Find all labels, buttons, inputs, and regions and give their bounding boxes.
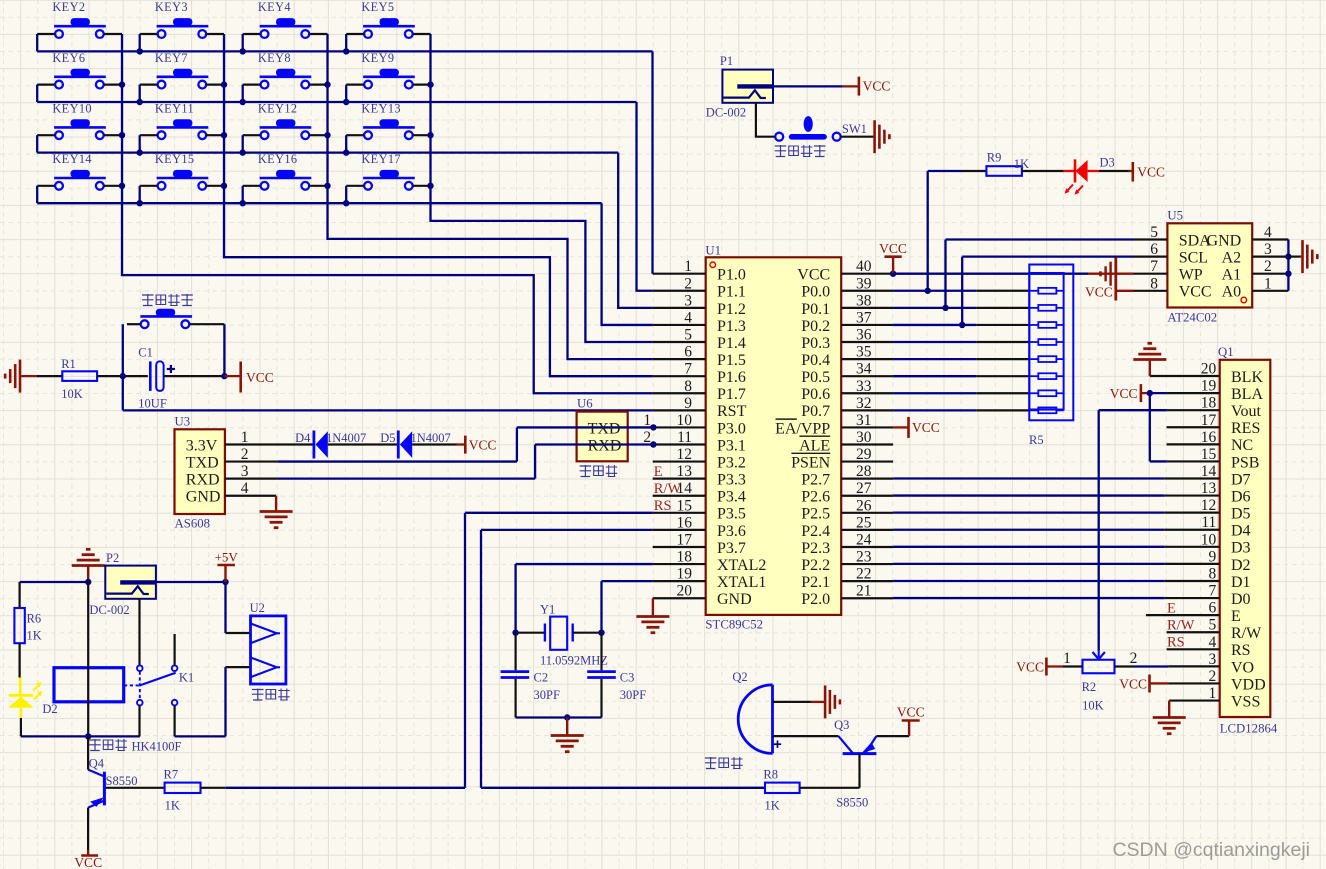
pin number 34: [856, 361, 872, 378]
wire: [1046, 665, 1082, 667]
pin stub left U5: [1134, 238, 1168, 240]
svg-text:1K: 1K: [1014, 157, 1029, 171]
svg-text:2: 2: [1130, 650, 1138, 667]
wire keypad row bus: [37, 151, 618, 153]
pin number 17: [677, 531, 693, 548]
svg-text:29: 29: [856, 446, 872, 463]
net label R/W Q1: [1167, 618, 1195, 634]
pin name RST: [717, 403, 747, 420]
pin number 16 Q1: [1201, 429, 1217, 446]
wire col4 to P1.4: [431, 34, 653, 342]
svg-text:RS: RS: [1231, 642, 1251, 659]
svg-text:U6: U6: [577, 397, 593, 411]
pin name P3.3: [717, 472, 746, 489]
svg-text:12: 12: [677, 446, 693, 463]
svg-text:P2.7: P2.7: [801, 472, 830, 489]
svg-text:1: 1: [1063, 650, 1071, 667]
svg-text:P1.0: P1.0: [717, 267, 746, 284]
relay coil HK4100F: [54, 668, 124, 702]
svg-text:RXD: RXD: [588, 437, 622, 454]
svg-text:TXD: TXD: [186, 454, 219, 471]
svg-text:AT24C02: AT24C02: [1167, 311, 1217, 325]
pin 18 stub U1: [653, 563, 706, 565]
junction: [221, 132, 227, 138]
wire col2 to P1.6: [224, 34, 653, 376]
svg-text:1K: 1K: [165, 799, 180, 813]
wire: [206, 185, 224, 187]
svg-text:TXD: TXD: [588, 420, 621, 437]
svg-text:34: 34: [856, 361, 872, 378]
pin 35 stub U1: [841, 358, 893, 360]
wire: [600, 633, 602, 671]
pin numbers U6: [643, 412, 651, 446]
svg-text:P3.7: P3.7: [717, 540, 746, 557]
LED D2: [8, 678, 57, 719]
pin number 8 Q1: [1209, 565, 1217, 582]
connector P2 DC-002: [89, 551, 155, 617]
svg-text:U2: U2: [250, 601, 265, 615]
svg-text:P2.5: P2.5: [801, 506, 830, 523]
svg-text:K1: K1: [179, 671, 194, 685]
svg-text:GND: GND: [186, 489, 221, 506]
wire P0.2 to R5: [893, 324, 1029, 326]
svg-text:23: 23: [856, 549, 872, 566]
svg-text:37: 37: [856, 309, 872, 326]
svg-text:D1: D1: [1231, 574, 1251, 591]
svg-text:KEY7: KEY7: [155, 51, 188, 65]
wire col1 to P1.7: [122, 34, 653, 393]
pin name Vout Q1: [1231, 403, 1261, 420]
wire VO: [1115, 665, 1220, 667]
svg-text:D4: D4: [295, 431, 311, 445]
pin number 22: [856, 566, 872, 583]
svg-text:Vout: Vout: [1231, 403, 1261, 420]
svg-text:D3: D3: [1100, 156, 1115, 170]
wire TXD: [225, 460, 517, 462]
pin 7 stub U1: [653, 375, 706, 377]
svg-text:P1.4: P1.4: [717, 335, 746, 352]
svg-text:P3.5: P3.5: [717, 506, 746, 523]
pin 33 stub U1: [841, 392, 893, 394]
pin 38 stub U1: [841, 307, 893, 309]
pin name XTAL2: [717, 557, 766, 574]
wire: [345, 186, 347, 203]
wire: [242, 186, 244, 203]
power VCC at P1: [859, 77, 890, 96]
pin name P3.4: [717, 489, 746, 506]
pin 28 stub U1: [841, 478, 893, 480]
svg-text:P1: P1: [720, 54, 733, 68]
power VCC at BLA: [1110, 384, 1141, 402]
wire: [309, 185, 327, 187]
wire: [140, 33, 158, 35]
power VCC at Q3: [897, 705, 925, 737]
svg-text:VO: VO: [1231, 659, 1254, 676]
pin number 20 Q1: [1201, 361, 1217, 378]
svg-text:VCC: VCC: [1179, 284, 1212, 301]
pin number 40: [856, 258, 872, 275]
wire: [242, 34, 244, 51]
pin 29 stub U1: [841, 460, 893, 462]
net label E Q1: [1167, 601, 1176, 617]
pin 2 stub U1: [653, 290, 706, 292]
wire BLA: [1141, 392, 1220, 394]
svg-text:P1.2: P1.2: [717, 301, 746, 318]
pin number 1 U5: [1264, 275, 1272, 292]
wire RXD riser: [535, 445, 653, 479]
push button KEY8: [258, 51, 311, 89]
svg-text:32: 32: [856, 395, 872, 412]
wire: [140, 134, 158, 136]
net label R/W: [654, 481, 682, 497]
svg-text:P0.0: P0.0: [801, 284, 830, 301]
pin 24 stub U1: [841, 546, 893, 548]
pin name XTAL1: [717, 574, 766, 591]
ground earth right of U5: [1303, 240, 1318, 273]
pin name P3.2: [717, 454, 746, 471]
svg-text:39: 39: [856, 275, 872, 292]
pin number 18 Q1: [1201, 395, 1217, 412]
designator U6: [577, 397, 593, 411]
resistor R7 1K: [164, 768, 201, 813]
wire: [773, 701, 826, 703]
wire Vout: [1099, 409, 1220, 411]
svg-text:P0.6: P0.6: [801, 386, 830, 403]
svg-text:D2: D2: [1231, 557, 1251, 574]
wire: [19, 643, 21, 677]
wire: [1022, 170, 1064, 172]
pin number 23: [856, 549, 872, 566]
pin name P0.2: [801, 318, 830, 335]
svg-text:21: 21: [856, 583, 872, 600]
pin name D1 Q1: [1231, 574, 1251, 591]
wire: [189, 324, 224, 376]
svg-text:STC89C52: STC89C52: [705, 618, 763, 632]
transistor Q3 S8550: [834, 718, 876, 810]
pin number 18: [677, 549, 693, 566]
svg-text:36: 36: [856, 327, 872, 344]
svg-text:P0.7: P0.7: [801, 403, 830, 420]
pin 4 stub U1: [653, 324, 706, 326]
comment STC89C52: [705, 618, 763, 632]
wire: [893, 426, 908, 428]
svg-text:30: 30: [856, 429, 872, 446]
pin name WP U5: [1179, 267, 1203, 284]
svg-text:P2: P2: [106, 551, 119, 565]
pin number 8 U5: [1150, 275, 1158, 292]
pin name P3.0: [717, 420, 746, 437]
svg-text:P0.2: P0.2: [801, 318, 830, 335]
label 复位按键: [142, 294, 193, 306]
wire SCL: [962, 257, 1133, 325]
wire: [1150, 375, 1220, 377]
pin number 5: [684, 327, 692, 344]
wire: [346, 83, 364, 85]
svg-text:DC-002: DC-002: [89, 603, 129, 617]
pin name P2.7: [801, 472, 830, 489]
pin number 33: [856, 378, 872, 395]
pin name P1.1: [717, 284, 746, 301]
pin number 9: [684, 395, 692, 412]
pin name GND: [717, 591, 752, 608]
pin number 12 Q1: [1201, 497, 1217, 514]
svg-text:7: 7: [684, 361, 692, 378]
svg-text:1: 1: [643, 412, 651, 429]
connector P1 DC-002: [706, 54, 773, 120]
pin number 11: [677, 429, 692, 446]
pin name P1.0: [717, 267, 746, 284]
wire: [345, 135, 347, 152]
wire: [140, 185, 158, 187]
pin number 15 Q1: [1201, 446, 1217, 463]
power VCC at R2: [1016, 658, 1046, 676]
pin name P1.7: [717, 386, 746, 403]
wire: [87, 736, 89, 769]
pin name P0.1: [801, 301, 830, 318]
power VCC at EA/VPP: [909, 417, 940, 438]
ground earth left of R1: [5, 360, 20, 393]
svg-text:+5V: +5V: [215, 550, 239, 565]
wire: [104, 134, 122, 136]
pin name BLA Q1: [1231, 386, 1263, 403]
svg-text:R/W: R/W: [1231, 625, 1262, 642]
svg-text:KEY15: KEY15: [155, 152, 195, 166]
svg-text:22: 22: [856, 566, 872, 583]
svg-text:RXD: RXD: [186, 472, 220, 489]
wire: [346, 33, 364, 35]
svg-text:KEY3: KEY3: [155, 0, 188, 14]
pin 40 stub U1: [841, 273, 893, 275]
pin number 6: [684, 344, 692, 361]
svg-text:P2.0: P2.0: [801, 591, 830, 608]
junction: [324, 81, 330, 87]
svg-text:PSB: PSB: [1231, 454, 1259, 471]
junction: [427, 81, 433, 87]
pin name NC Q1: [1231, 437, 1253, 454]
svg-text:6: 6: [684, 344, 692, 361]
svg-text:P3.2: P3.2: [717, 454, 746, 471]
pin 39 stub U1: [841, 290, 893, 292]
pin stub left U5: [1134, 273, 1168, 275]
pin name D5 Q1: [1231, 506, 1251, 523]
pin name VCC: [797, 267, 830, 284]
svg-text:KEY5: KEY5: [361, 0, 394, 14]
junction: [324, 132, 330, 138]
pin 20 stub U1: [653, 597, 706, 599]
pin name P1.5: [717, 352, 746, 369]
wire XTAL1: [602, 581, 653, 633]
wire: [138, 598, 140, 665]
svg-text:Q1: Q1: [1218, 345, 1234, 359]
push button KEY6: [52, 51, 105, 89]
wire: [226, 666, 251, 668]
svg-text:1N4007: 1N4007: [411, 431, 451, 445]
wire P0.1 to R5: [893, 307, 1029, 309]
wire: [1116, 290, 1134, 292]
pin 31 stub U1: [841, 426, 893, 428]
junction: [925, 288, 931, 294]
junction: [427, 183, 433, 189]
svg-text:Y1: Y1: [540, 603, 555, 617]
wire: [413, 185, 431, 187]
svg-text:KEY13: KEY13: [361, 101, 401, 115]
svg-text:VCC: VCC: [797, 267, 830, 284]
push button KEY7: [155, 51, 208, 89]
svg-text:10: 10: [677, 412, 693, 429]
junction: [137, 99, 143, 105]
pin name P0.3: [801, 335, 830, 352]
pin 12 stub U1: [653, 460, 706, 462]
wire P3.5 net: [226, 513, 653, 788]
svg-text:Q4: Q4: [89, 757, 105, 771]
svg-text:VCC: VCC: [863, 79, 891, 94]
pin number 27: [856, 480, 872, 497]
pin 4 stub Q1: [1167, 648, 1220, 650]
wire: [157, 581, 226, 583]
overline PSEN: [791, 452, 830, 454]
svg-text:17: 17: [677, 531, 693, 548]
pin 14 stub U1: [653, 495, 706, 497]
pin number 38: [856, 292, 872, 309]
pin 34 stub U1: [841, 375, 893, 377]
power VCC at D5: [465, 436, 496, 454]
wire: [773, 735, 839, 737]
crystal Y1 11.0592MHZ: [540, 603, 608, 668]
pin name P0.4: [801, 352, 830, 369]
wire: [242, 85, 244, 102]
wire: [104, 83, 122, 85]
wire: [800, 787, 860, 789]
pin 13 stub U1: [653, 478, 706, 480]
svg-text:HK4100F: HK4100F: [132, 740, 182, 754]
junction: [1147, 390, 1153, 396]
wire: [858, 754, 860, 788]
pin name P2.2: [801, 557, 830, 574]
svg-text:P0.4: P0.4: [801, 352, 830, 369]
pin name P3.7: [717, 540, 746, 557]
pin number 3 U3: [241, 463, 249, 480]
wire P0.3 to R5: [893, 341, 1029, 343]
svg-text:D0: D0: [1231, 591, 1251, 608]
pin stub right U5: [1252, 238, 1288, 240]
IC Q1 body: [1220, 360, 1271, 717]
label 继电器HK4100F: [89, 739, 181, 754]
push button KEY3: [155, 0, 208, 38]
pin name RS Q1: [1231, 642, 1251, 659]
pin name D4 Q1: [1231, 523, 1251, 540]
wire: [87, 582, 89, 736]
pin name P2.5: [801, 506, 830, 523]
junction: [343, 48, 349, 54]
designator Q1: [1218, 345, 1234, 359]
pin number 16: [677, 514, 693, 531]
wire: [224, 582, 226, 633]
wire: [87, 808, 89, 856]
pin name P3.6: [717, 523, 746, 540]
svg-text:33: 33: [856, 378, 872, 395]
pin number 24: [856, 531, 872, 548]
pin 17 stub Q1: [1167, 426, 1220, 428]
svg-text:U1: U1: [705, 244, 721, 258]
pin number 13: [677, 463, 693, 480]
pin 21 stub U1: [841, 597, 893, 599]
wire: [773, 85, 859, 87]
resistor R6 1K: [14, 608, 41, 643]
svg-text:E: E: [654, 464, 663, 480]
pin names U6: [588, 420, 622, 454]
pin name D3 Q1: [1231, 540, 1251, 557]
pin 32 stub U1: [841, 409, 893, 411]
wire: [600, 679, 602, 718]
junction: [324, 183, 330, 189]
wire P0.6 to R5: [893, 392, 1029, 394]
wire: [36, 85, 38, 102]
ground earth at U1 GND: [636, 617, 669, 633]
pin name P0.6: [801, 386, 830, 403]
pin number 35: [856, 344, 872, 361]
svg-text:P2.1: P2.1: [801, 574, 830, 591]
svg-text:D2: D2: [42, 702, 57, 716]
LED D3: [1064, 156, 1115, 195]
svg-text:BLA: BLA: [1231, 386, 1263, 403]
svg-text:16: 16: [677, 514, 693, 531]
pin number 6 Q1: [1209, 600, 1217, 617]
wire: [104, 787, 164, 789]
junction: [959, 322, 965, 328]
svg-text:P1.3: P1.3: [717, 318, 746, 335]
pin name GND U5: [1207, 232, 1242, 249]
overline EA: [776, 418, 797, 420]
push button KEY17: [361, 152, 414, 190]
wire VDD: [1150, 682, 1220, 684]
wire P3.6 net: [481, 530, 765, 788]
pin name VSS Q1: [1231, 693, 1260, 710]
svg-text:D7: D7: [1231, 471, 1251, 488]
ground earth at VSS: [1153, 718, 1186, 734]
pin name SCL U5: [1179, 250, 1208, 267]
svg-text:27: 27: [856, 480, 872, 497]
wire: [573, 632, 602, 634]
svg-text:13: 13: [677, 463, 693, 480]
svg-text:KEY2: KEY2: [52, 0, 85, 14]
svg-text:R/W: R/W: [1167, 618, 1195, 634]
push button KEY9: [361, 51, 414, 89]
svg-text:KEY16: KEY16: [258, 152, 298, 166]
svg-text:VCC: VCC: [1119, 676, 1147, 691]
wire: [309, 134, 327, 136]
wire: [516, 716, 602, 718]
svg-text:P2.2: P2.2: [801, 557, 830, 574]
svg-text:S8550: S8550: [836, 796, 868, 810]
junction: [512, 630, 518, 636]
pin 17 stub U1: [653, 546, 706, 548]
wire: [226, 632, 251, 634]
junction: [119, 81, 125, 87]
junction: [427, 132, 433, 138]
svg-text:RS: RS: [654, 498, 672, 514]
junction: [119, 183, 125, 189]
wire P0.0 to R5: [893, 290, 1029, 292]
wire: [516, 632, 545, 634]
svg-text:1N4007: 1N4007: [326, 431, 366, 445]
svg-text:8: 8: [684, 378, 692, 395]
pin number 14: [677, 480, 693, 497]
pin number 4 U5: [1264, 224, 1272, 241]
wire TXD riser: [517, 427, 653, 461]
svg-text:KEY10: KEY10: [52, 101, 92, 115]
svg-text:LCD12864: LCD12864: [1220, 722, 1278, 736]
wire: [87, 566, 89, 583]
